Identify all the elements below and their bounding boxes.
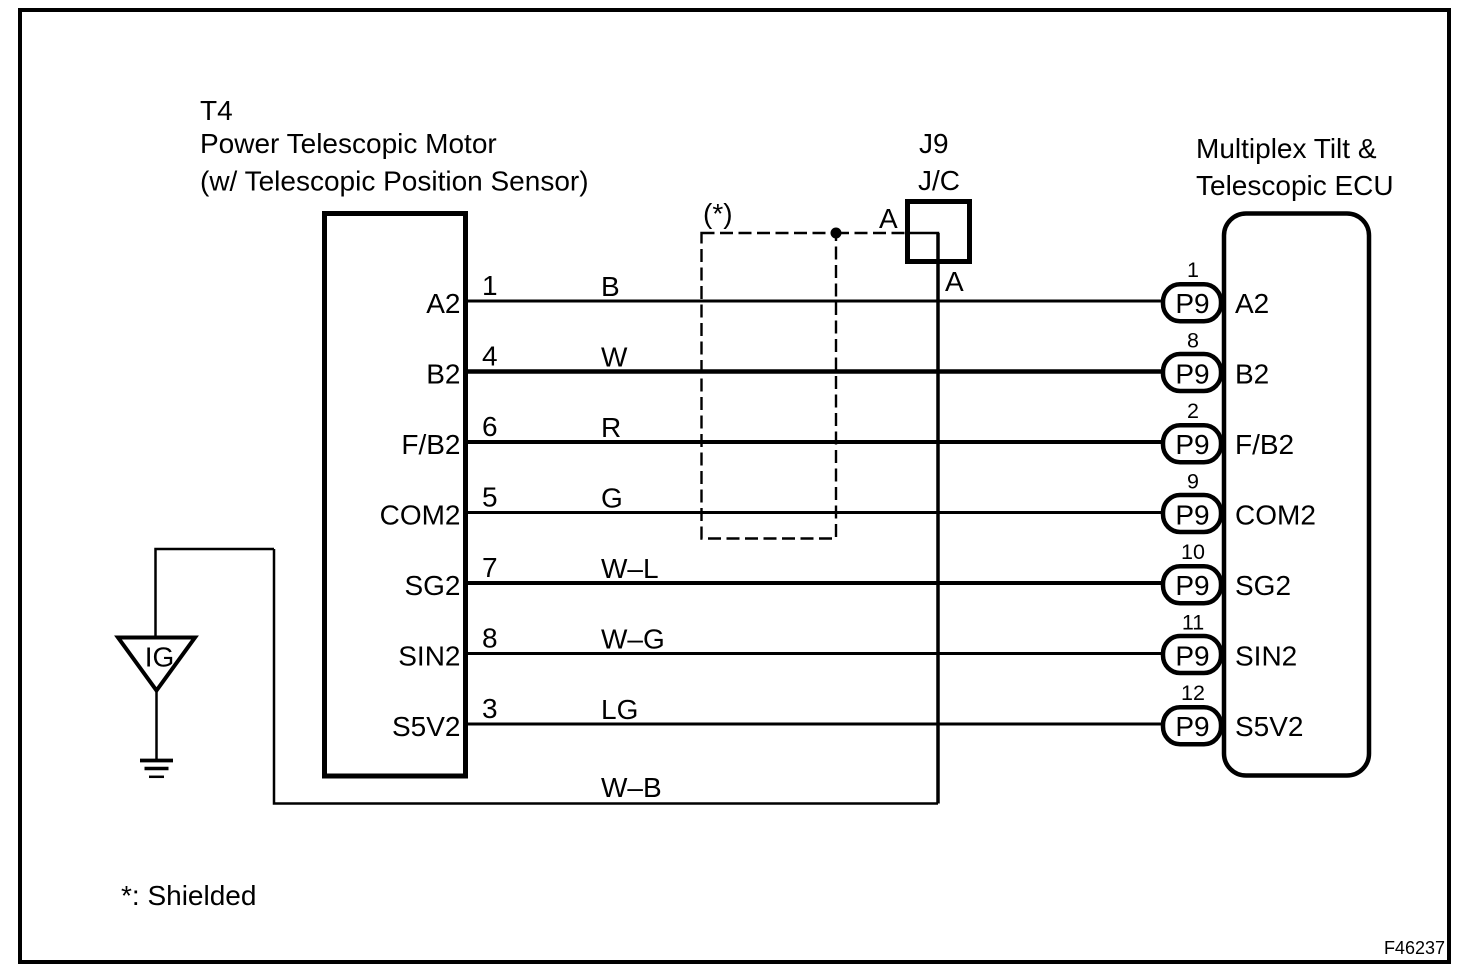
wire F/B2 to P9 (colour R) (468, 440, 1162, 444)
svg-text:COM2: COM2 (1235, 500, 1316, 531)
connector P9 oval pin 11 (1163, 636, 1221, 673)
svg-text:B2: B2 (1235, 359, 1269, 390)
wire shield to J/C (dashed) (836, 232, 905, 234)
svg-text:(w/ Telescopic Position Sensor: (w/ Telescopic Position Sensor) (200, 166, 589, 197)
svg-text:12: 12 (1181, 681, 1205, 705)
junction block J9 J/C box (908, 202, 970, 262)
svg-text:R: R (601, 412, 621, 443)
svg-text:*: Shielded: *: Shielded (121, 880, 256, 911)
svg-text:A: A (879, 203, 898, 234)
junction node dot (831, 228, 842, 239)
svg-text:Telescopic ECU: Telescopic ECU (1196, 170, 1394, 201)
svg-text:4: 4 (482, 341, 498, 372)
svg-text:P9: P9 (1175, 500, 1209, 531)
svg-text:P9: P9 (1175, 359, 1209, 390)
svg-text:LG: LG (601, 694, 638, 725)
svg-text:7: 7 (482, 552, 498, 583)
svg-text:B2: B2 (426, 359, 460, 390)
svg-text:W–B: W–B (601, 772, 662, 803)
svg-text:W–L: W–L (601, 553, 659, 584)
connector P9 oval pin 1 (1163, 284, 1221, 321)
wire COM2 to P9 (colour G) (468, 511, 1162, 514)
wire SG2 to P9 (colour W-L) (468, 581, 1162, 585)
connector T4 (Power Telescopic Motor) box (325, 214, 466, 777)
svg-text:S5V2: S5V2 (392, 711, 461, 742)
svg-text:P9: P9 (1175, 429, 1209, 460)
svg-text:IG: IG (145, 642, 175, 673)
svg-text:11: 11 (1182, 611, 1204, 635)
svg-text:SIN2: SIN2 (398, 641, 460, 672)
svg-text:F46237: F46237 (1384, 938, 1445, 958)
svg-text:P9: P9 (1175, 711, 1209, 742)
svg-text:W: W (601, 342, 628, 373)
label T4 connector title (200, 95, 589, 197)
svg-text:P9: P9 (1175, 641, 1209, 672)
svg-text:8: 8 (482, 623, 498, 654)
svg-text:S5V2: S5V2 (1235, 711, 1304, 742)
svg-text:3: 3 (482, 693, 498, 724)
wire W-B (ground return) (274, 549, 938, 804)
wire B2 to P9 (colour W) (468, 369, 1162, 374)
svg-text:F/B2: F/B2 (1235, 429, 1294, 460)
svg-text:Power Telescopic Motor: Power Telescopic Motor (200, 128, 497, 159)
shield (*) dashed box (702, 233, 837, 539)
svg-text:9: 9 (1187, 470, 1199, 494)
ECU box (Multiplex Tilt & Telescopic ECU) (1224, 214, 1369, 776)
svg-text:J9: J9 (919, 128, 949, 159)
wire IG to corner (156, 549, 275, 637)
svg-text:Multiplex Tilt &: Multiplex Tilt & (1196, 133, 1377, 164)
wire J/C down to W-B (936, 233, 940, 804)
svg-text:5: 5 (482, 482, 498, 513)
svg-text:T4: T4 (200, 95, 233, 126)
svg-text:W–G: W–G (601, 624, 665, 655)
connector P9 oval pin 9 (1163, 495, 1221, 532)
svg-text:P9: P9 (1175, 288, 1209, 319)
svg-text:SIN2: SIN2 (1235, 641, 1297, 672)
ground symbol (140, 761, 173, 777)
svg-text:A2: A2 (426, 288, 460, 319)
svg-text:SG2: SG2 (404, 570, 460, 601)
wire A2 to P9 (colour B) (468, 300, 1162, 303)
svg-text:P9: P9 (1175, 570, 1209, 601)
wire inside J/C (905, 233, 938, 236)
wire S5V2 to P9 (colour LG) (468, 723, 1162, 726)
svg-text:B: B (601, 271, 620, 302)
svg-text:6: 6 (482, 411, 498, 442)
svg-text:A2: A2 (1235, 288, 1269, 319)
connector P9 oval pin 12 (1163, 707, 1221, 744)
svg-text:A: A (945, 266, 964, 297)
connector P9 oval pin 2 (1163, 425, 1221, 462)
svg-text:1: 1 (482, 270, 498, 301)
IG power symbol triangle (118, 638, 195, 691)
svg-text:(*): (*) (703, 198, 733, 229)
svg-text:J/C: J/C (918, 165, 960, 196)
label Multiplex Tilt & Telescopic ECU (1196, 133, 1394, 201)
connector P9 oval pin 10 (1163, 566, 1221, 603)
svg-text:10: 10 (1181, 540, 1205, 564)
svg-text:2: 2 (1187, 399, 1199, 423)
connector P9 oval pin 8 (1163, 354, 1221, 391)
svg-text:SG2: SG2 (1235, 570, 1291, 601)
wire IG to ground (155, 691, 158, 760)
svg-text:COM2: COM2 (380, 500, 461, 531)
wire SIN2 to P9 (colour W-G) (468, 652, 1162, 655)
svg-text:G: G (601, 483, 623, 514)
svg-text:8: 8 (1187, 329, 1199, 353)
svg-text:1: 1 (1187, 258, 1199, 282)
svg-text:F/B2: F/B2 (401, 429, 460, 460)
